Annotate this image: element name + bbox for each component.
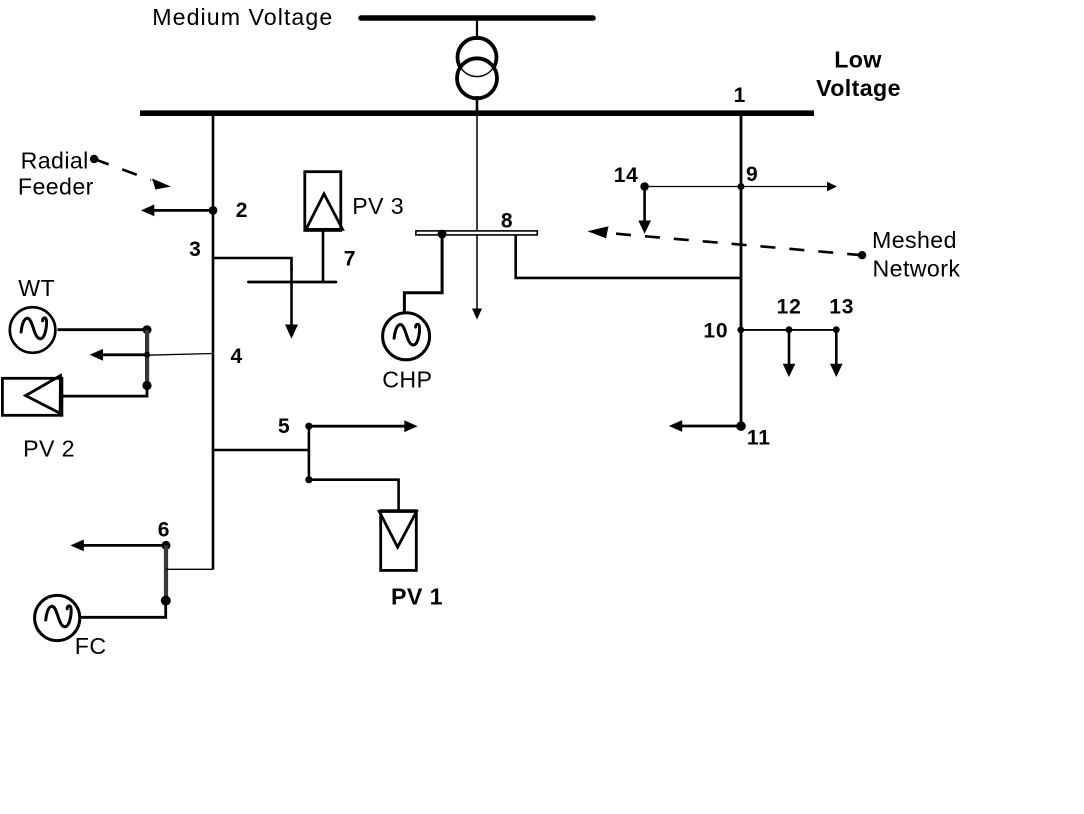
wire node 6 to feeder [166, 568, 213, 570]
tie bar node 6 [164, 545, 168, 601]
node 12 [786, 326, 793, 333]
FC fuel cell [35, 595, 80, 640]
CHP generator [383, 313, 430, 360]
svg-text:Medium Voltage: Medium Voltage [152, 4, 333, 30]
load arrow below bus 7 [285, 268, 298, 339]
wire node 5 vertical [308, 426, 311, 480]
junction dot pv1 [305, 476, 312, 483]
node 2 [209, 206, 218, 215]
node 14 [640, 182, 649, 191]
svg-text:14: 14 [614, 164, 639, 187]
svg-text:8: 8 [501, 210, 513, 233]
transformer T1 [457, 38, 497, 99]
load arrow at node 2 [141, 205, 213, 217]
svg-text:4: 4 [231, 345, 243, 368]
meshed feeder vertical line [740, 113, 743, 426]
junction dot on bus 8 [438, 230, 447, 239]
svg-text:7: 7 [344, 247, 356, 270]
node 9 [738, 183, 745, 190]
wire to PV 1 [309, 480, 399, 511]
meshed network callout dashed arrow [588, 226, 863, 255]
wire transformer to LV bus [476, 96, 479, 113]
svg-text:Network: Network [873, 255, 961, 281]
meshed network callout dot [858, 251, 866, 259]
junction dot node4 mid [144, 352, 150, 358]
svg-text:PV 3: PV 3 [352, 193, 404, 219]
wire node 5 branch [213, 449, 309, 452]
wire node 3 branch [213, 258, 292, 270]
bus 8 [416, 231, 537, 235]
svg-text:Meshed: Meshed [872, 227, 957, 253]
radial feeder callout dashed arrow [94, 159, 171, 190]
node 11 [736, 421, 746, 431]
load arrow at node 13 [830, 330, 843, 377]
load arrow at node 6 [71, 540, 167, 552]
WT wind turbine [10, 307, 56, 353]
svg-text:FC: FC [75, 633, 107, 659]
svg-text:9: 9 [746, 163, 758, 186]
wire FC to tie bar [81, 601, 166, 617]
bus 7 [248, 281, 336, 284]
svg-text:PV 2: PV 2 [23, 435, 75, 461]
radial feeder vertical line [212, 113, 215, 570]
transformer feeder with load arrow [472, 116, 482, 320]
wire PV 2 to tie bar [63, 386, 147, 397]
node 5 [305, 423, 312, 430]
svg-text:5: 5 [278, 415, 290, 438]
svg-text:CHP: CHP [382, 367, 432, 393]
svg-text:PV 1: PV 1 [391, 583, 443, 609]
node 6 [162, 541, 171, 550]
wire PV 3 to bus 7 [322, 231, 325, 282]
svg-text:6: 6 [158, 519, 170, 542]
svg-text:Voltage: Voltage [816, 75, 901, 101]
tie bar node 4 [145, 330, 149, 386]
load arrow at node 5 [309, 420, 418, 432]
svg-text:1: 1 [734, 84, 746, 107]
wire node 10 to loads [741, 329, 837, 331]
wire MV bus to transformer [476, 18, 478, 40]
svg-text:3: 3 [189, 238, 201, 261]
PV 3 [305, 172, 343, 231]
wire bus 8 to meshed feeder [516, 235, 741, 278]
wire WT to tie bar [58, 328, 148, 331]
svg-text:WT: WT [18, 275, 55, 301]
junction dot fc [161, 596, 171, 606]
PV 1 [379, 511, 416, 571]
svg-text:13: 13 [829, 295, 854, 318]
load arrow at node 14 [638, 187, 651, 234]
load arrow at node 4 [90, 349, 147, 361]
node 10 [737, 327, 744, 334]
wire node 4 to feeder [147, 354, 213, 356]
svg-text:11: 11 [747, 426, 771, 449]
node 13 [833, 326, 840, 333]
radial feeder callout dot [90, 155, 98, 163]
PV 2 [2, 376, 62, 416]
svg-text:Radial: Radial [21, 148, 89, 174]
medium voltage bus [361, 15, 593, 21]
svg-text:Low: Low [834, 47, 882, 73]
wire node 14 to node 9 with arrow [645, 182, 837, 192]
svg-text:Feeder: Feeder [18, 173, 94, 199]
load arrow at node 11 [669, 420, 741, 432]
low voltage bus [140, 110, 814, 116]
load arrow at node 12 [783, 330, 796, 377]
junction dot node4 top [143, 325, 152, 334]
svg-text:2: 2 [236, 199, 248, 222]
svg-text:12: 12 [777, 295, 802, 318]
wire bus 8 to CHP [404, 234, 442, 312]
svg-text:10: 10 [703, 320, 728, 343]
junction dot node4 bottom [142, 381, 151, 390]
